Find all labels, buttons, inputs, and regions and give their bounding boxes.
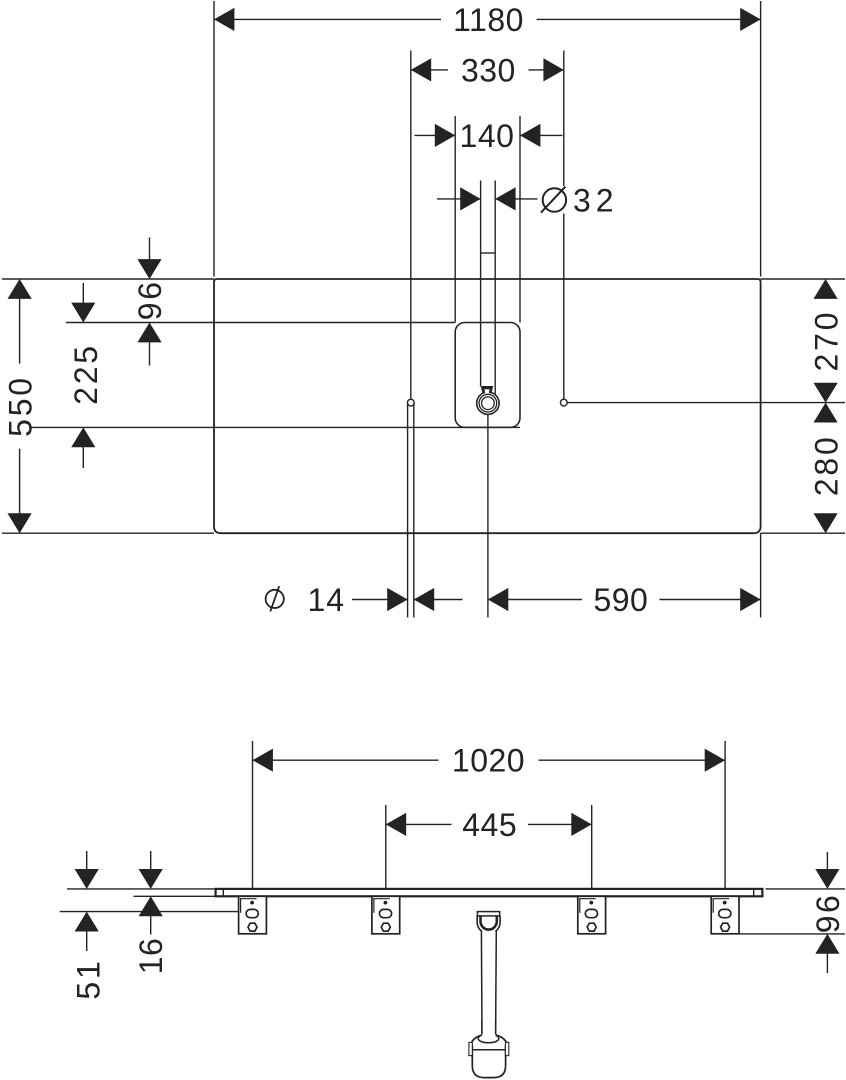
dim 16 arrow up [139,896,163,916]
Ø14 leader line right [413,404,415,618]
drain outlet outer hook [477,916,500,934]
dim 590 arrow right [740,588,760,611]
dim Ø14 symbol [266,590,284,608]
trap cup weld line [472,1049,505,1051]
faucet hole middle circle [479,394,497,412]
cutout top reference line (96) [66,322,455,324]
slab top extension right [766,888,846,890]
bracket slot reference line (51) [60,911,239,913]
faucet hole inner circle [482,397,495,410]
dim 330 extension right [563,51,565,187]
dim 550 arrow up [8,279,32,299]
dim 51 arrow down [86,851,88,871]
dim 140 extension right [519,116,521,323]
svg-text:590: 590 [593,582,648,618]
trap cup [472,1045,505,1077]
dim Ø14 arrow right [414,588,434,611]
dim 225 arrow down [82,283,84,304]
dim 96 lower arrow up [815,934,839,954]
basin top edge extension left [2,278,214,280]
basin bottom edge extension right [761,532,845,534]
mounting bracket 4 [711,896,739,934]
dim Ø32 extension right [494,181,496,395]
dim 330 arrow right [543,58,563,81]
dim 51 arrow up [75,912,99,932]
dim 1020 line [253,759,439,761]
dim 445 extension left [385,805,387,889]
svg-text:32: 32 [573,183,619,219]
dim 225 arrow up [71,427,95,447]
dim 1180 arrow left [214,8,234,31]
tailpipe lower walls [481,1020,483,1034]
dim 1020 arrow left [253,749,273,772]
dim Ø32 tail left [437,198,481,200]
svg-text:445: 445 [462,807,517,843]
dim 445 line [386,823,452,825]
dim Ø32 extension left [480,181,482,387]
dim 96 upper arrow up [137,323,161,343]
trap tab left [469,1042,472,1055]
faucet handle mark [481,386,493,393]
dim 1020 extension right [724,741,726,889]
dim 590 line [488,599,582,601]
dim 550 line [19,298,21,364]
dim 96 lower arrow down [826,852,828,871]
trap inlet ellipse [478,1034,499,1043]
dim 445 extension right [591,805,593,889]
dim 280 arrow down [814,513,838,533]
right fixing hole [560,399,567,406]
faucet centerline [487,415,489,618]
dim 1180 extension right [760,1,762,277]
dim 590 arrow left [488,588,508,611]
dim 16 arrow down [150,851,152,871]
dim 330 arrow left [411,58,431,81]
slab top extension left [67,888,216,890]
dim 280 arrow up [814,403,838,423]
svg-text:96: 96 [810,893,846,934]
Ø14 leader line left [407,404,409,618]
svg-text:225: 225 [68,343,104,405]
dim 140 arrow left [435,124,455,147]
svg-text:140: 140 [460,118,515,154]
dim 270 arrow down [814,383,838,403]
dim 1180 arrow right [740,8,760,31]
left fixing hole [407,399,414,406]
drain outlet inner hook [481,916,497,930]
dim Ø32 symbol [543,188,566,211]
basin top edge extension right [761,278,845,280]
dim Ø14 arrow left [387,588,407,611]
svg-text:280: 280 [808,434,844,496]
drain collar plate [477,912,499,916]
svg-text:51: 51 [70,958,106,999]
svg-text:14: 14 [308,582,346,618]
dim 270 arrow up [814,279,838,299]
svg-text:1180: 1180 [453,2,524,38]
mounting bracket 1 [239,896,267,934]
dim Ø32 arrow right [495,187,515,210]
dim 1020 arrow right [705,749,725,772]
trap tab right [505,1042,508,1055]
faucet body tick [481,252,496,254]
tailpipe lower mask [482,1020,495,1041]
slab bottom extension left [134,895,216,897]
dim 140 tail right [520,134,563,136]
mounting bracket 2 [372,896,400,934]
slab right seam [753,889,755,896]
dim 1020 extension left [252,741,254,889]
tailpipe right wall [495,931,498,1034]
svg-text:96: 96 [132,279,168,320]
bracket bottom extension right [739,933,845,935]
svg-text:1020: 1020 [452,743,525,779]
dim Ø14 tail left [352,599,408,601]
cutout bottom reference line (225) [29,426,520,428]
dim Ø14 tail right [414,599,463,601]
hole axis line to right margin [567,402,845,404]
dim Ø32 arrow left [460,187,480,210]
dim 550 arrow down [8,513,32,533]
svg-text:16: 16 [133,938,169,975]
faucet hole outer circle [477,392,499,414]
dim 96 upper arrow down [149,238,151,261]
slab left seam [222,889,224,896]
svg-text:270: 270 [808,310,844,372]
mounting bracket 3 [578,896,606,934]
dim 330 extension left [410,51,412,399]
console slab outline [216,889,763,896]
dim 330 line [411,69,448,71]
sink cutout [455,323,520,428]
trap flange ellipse [471,1034,507,1056]
washbasin console top view outline [214,279,761,533]
dim 445 arrow right [571,813,591,836]
dim 1180 extension left [213,1,215,277]
dim 140 arrow right [520,124,540,147]
dim 590 extension right [760,533,762,617]
dim 140 extension left [454,116,456,323]
dim 140 tail left [415,134,456,136]
tailpipe left wall [480,931,483,1034]
svg-text:550: 550 [2,375,38,437]
basin bottom edge extension left [2,532,214,534]
dim 445 arrow left [386,813,406,836]
dim Ø32 tail right [495,198,537,200]
tailpipe mask [482,931,497,1034]
svg-text:330: 330 [461,52,516,88]
dim 1180 line [214,18,441,20]
